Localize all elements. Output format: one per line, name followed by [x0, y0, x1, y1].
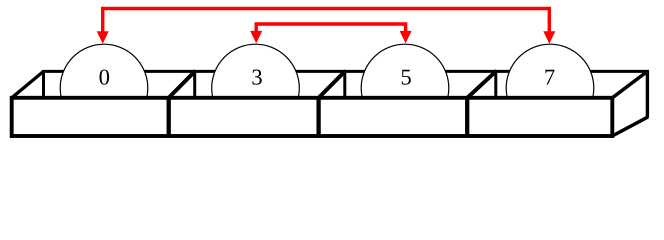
dome 5: [361, 44, 449, 132]
right wall top slant: [612, 71, 648, 98]
dome 3: [212, 44, 300, 132]
back top edge of tray: [42, 70, 649, 73]
divider 2 top slant: [317, 71, 345, 99]
front divider line 1: [167, 98, 171, 136]
left wall top slant: [12, 71, 44, 97]
divider 1 top slant: [168, 71, 196, 99]
front wall of tray: [12, 98, 613, 136]
label 7: [545, 70, 554, 85]
divider 2 back vertical: [343, 70, 346, 98]
red connector outer (dome 0 to dome 7): [103, 9, 550, 33]
right wall back vertical: [646, 70, 649, 117]
divider 3 top slant: [466, 71, 497, 99]
label 0: [100, 69, 110, 84]
red connector inner (dome 3 to dome 5): [256, 24, 405, 31]
arrowhead at dome 5: [400, 31, 412, 44]
label 3: [252, 70, 261, 85]
front divider line 2: [316, 98, 320, 136]
arrowhead at dome 0: [97, 31, 109, 44]
arrowhead at dome 3: [250, 31, 262, 44]
dome 7: [506, 44, 594, 132]
arrowhead at dome 7: [543, 31, 555, 44]
left wall back vertical: [42, 70, 45, 98]
right wall bottom slant: [612, 117, 648, 136]
divider 1 back vertical: [193, 70, 196, 98]
dome 0: [60, 44, 148, 132]
label 5: [402, 70, 411, 85]
divider 3 back vertical: [494, 70, 497, 98]
front divider line 3: [465, 98, 469, 136]
